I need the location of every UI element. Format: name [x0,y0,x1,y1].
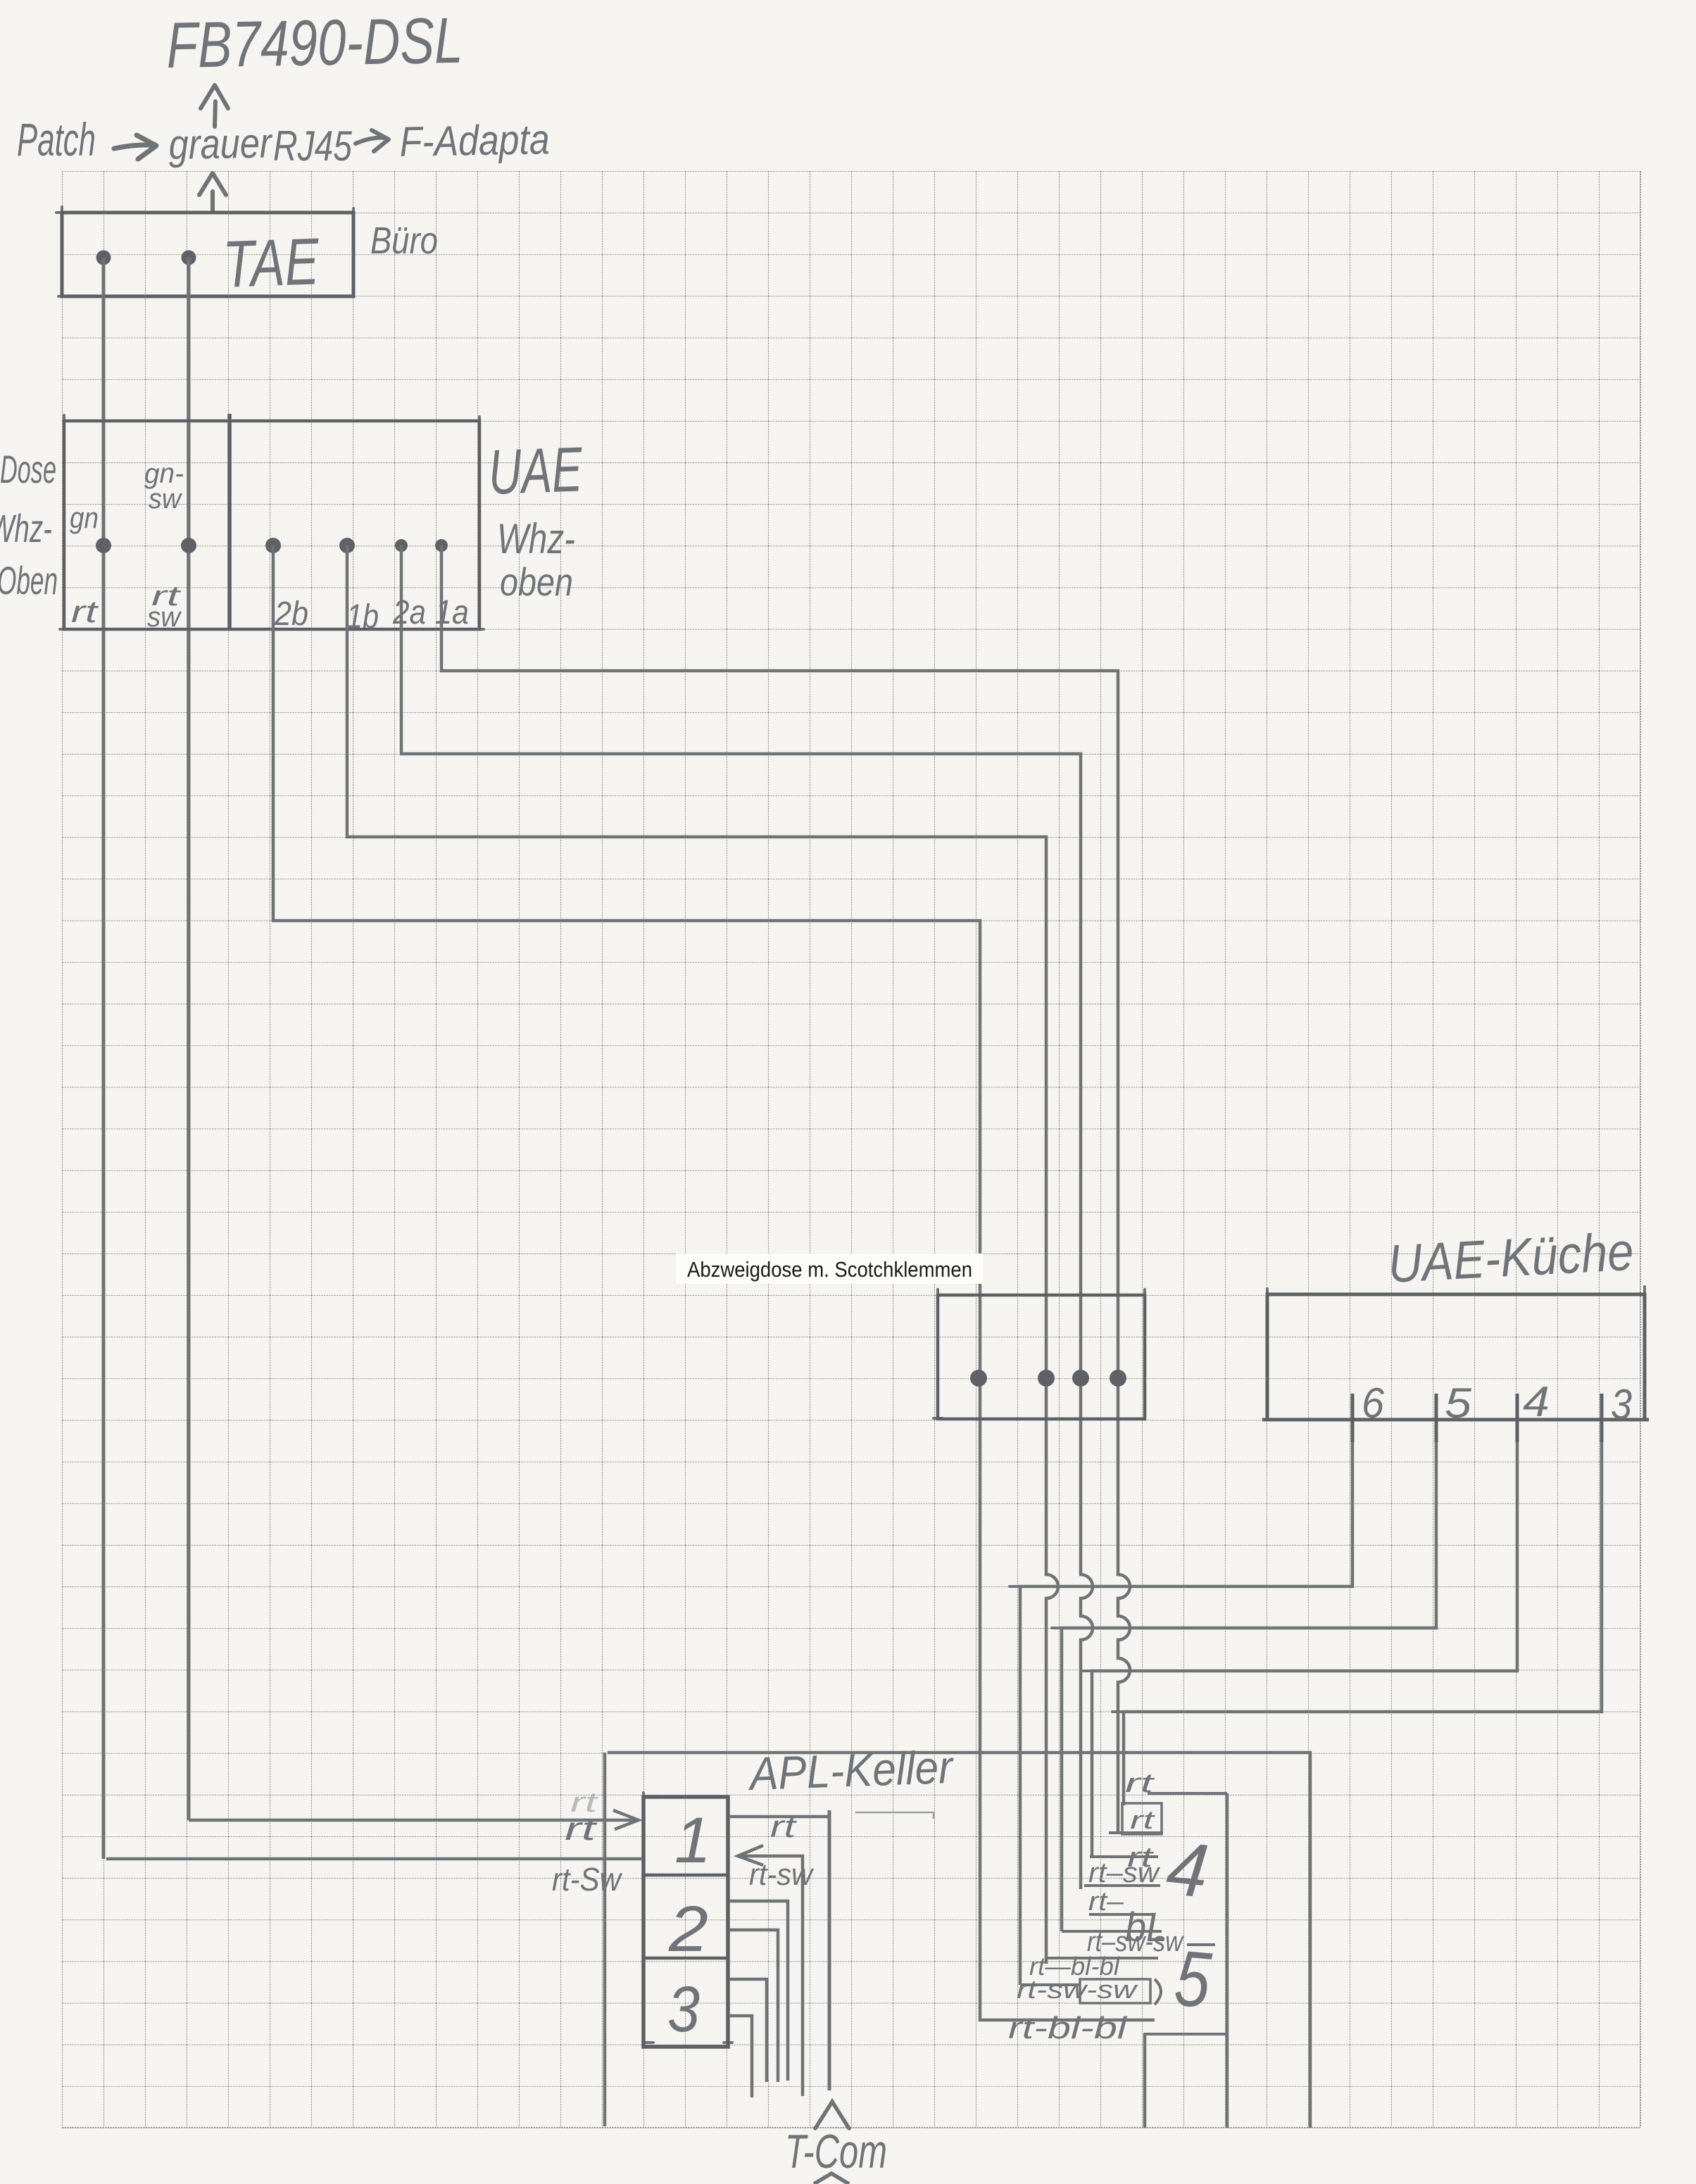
stack4 bottom wire [1089,1913,1155,1916]
typed label Abzweigdose m. Scotchklemmen [676,1254,983,1284]
svg-text:Dose: Dose [0,447,56,491]
svg-text:rt: rt [770,1810,797,1844]
dose contact dot 2b [265,538,281,553]
stack4 rt box [1122,1803,1162,1834]
svg-text:Büro: Büro [370,220,438,262]
dose contact dot gn [96,538,111,553]
svg-text:F-Adapta: F-Adapta [399,115,550,165]
wire APL block3 b [729,2016,752,2097]
wire pin 1b to Abzweigdose [347,545,1058,1964]
svg-text:rt: rt [570,1787,599,1818]
svg-text:UAE: UAE [487,434,584,508]
T-Com riser [828,1810,831,2090]
wire UAE pin3 to connector [1124,1442,1602,1805]
faint stub wire right of T-Com riser [855,1812,934,1819]
UAE-Küche box [1267,1294,1645,1420]
svg-text:rt: rt [1130,1805,1156,1834]
T-Com arrowhead [815,2102,849,2128]
wire TAE pin1 down to APL (rt-sw) [102,258,106,1859]
svg-text:rt: rt [1125,1769,1155,1798]
wire pin 2a to Abzweigdose [401,545,1093,1889]
arrow Patch to grauer [114,135,156,159]
riser from stack5 bottom [1143,2034,1147,2128]
Abzweigdose dot 1b [1038,1370,1055,1387]
arrow TAE to grauer RJ45 [199,173,226,211]
stack4 wire under rt box [1109,1831,1163,1834]
svg-text:rt-sw-sw: rt-sw-sw [1017,1975,1138,2004]
TAE box (Büro) [62,213,353,296]
dose contact dot gn-sw [181,538,196,553]
stack5 boxed rt-sw [1080,1979,1150,2003]
svg-text:rt-Sw: rt-Sw [552,1861,623,1898]
svg-text:Patch: Patch [17,113,96,165]
UAE pin 4 tick [1516,1394,1519,1442]
stack4 wire rt-sw bottom [1084,1884,1160,1887]
svg-text:sw: sw [149,484,183,515]
stack5 top wire [1062,1930,1162,1933]
APL divider 2/3 [643,1957,728,1960]
svg-text:Oben: Oben [0,558,58,602]
svg-text:1b: 1b [346,598,379,636]
svg-text:3: 3 [1611,1381,1632,1428]
arrow RJ45 to F-Adapta [356,130,389,151]
wire pin6 into boxed rt-sw [1020,1983,1080,1986]
connector stack 4 top wire [1148,1792,1227,1795]
svg-text:APL-Keller: APL-Keller [746,1741,955,1800]
svg-text:gn: gn [70,501,99,534]
long wire to riser [608,1753,1310,2128]
svg-text:T-Com: T-Com [785,2125,887,2178]
svg-text:RJ45: RJ45 [273,122,352,170]
svg-text:rt–: rt– [1088,1887,1124,1917]
dash right of sw-sw [1187,1943,1215,1946]
arrow to FB7490-DSL [201,85,228,127]
Abzweigdose box [938,1295,1145,1419]
wire UAE pin5 to connector [1062,1442,1436,1931]
svg-text:Whz-: Whz- [497,515,575,562]
Abzweigdose dot 2a [1072,1370,1089,1387]
dose contact dot 2a [395,539,408,552]
riser from stack4 to bottom [1226,1793,1229,2128]
wire pin 1a to Abzweigdose [441,545,1130,1833]
svg-text:rt: rt [71,595,99,629]
APL-Keller box [643,1797,728,2047]
svg-text:Whz-: Whz- [0,506,52,550]
pencil corner overshoot ticks [56,207,1645,2043]
svg-text:4: 4 [1523,1378,1550,1425]
svg-text:rt-sw: rt-sw [749,1857,815,1892]
wire APL block1 to T-Com riser [729,1815,829,1819]
svg-text:3: 3 [667,1974,700,2045]
Dose Whz-oben / UAE Whz-oben box [64,421,479,629]
wire rt into APL block1 [189,1810,639,1829]
wire APL block2 a [729,1901,788,2081]
wire rt-sw into APL block1 [106,1857,642,1861]
UAE pin 6 tick [1351,1394,1355,1442]
bracket after boxed rt-sw [1155,1979,1161,2005]
wire APL block3 a [729,1979,767,2082]
UAE pin 5 tick [1435,1394,1438,1442]
partial arrowhead at page bottom [814,2173,849,2184]
APL divider 1/2 [643,1874,728,1877]
svg-text:5: 5 [1445,1380,1472,1427]
Abzweigdose dot 1a [1110,1370,1126,1387]
svg-text:grauer: grauer [168,119,273,168]
stack5 bottom wire [1143,2033,1227,2035]
wire UAE pin6 to connector [1020,1442,1352,1985]
wire TAE pin2 down to APL (rt) [187,258,191,1820]
svg-text:1: 1 [674,1805,711,1876]
svg-text:2a: 2a [392,594,426,631]
svg-text:oben: oben [500,560,573,604]
Abzweigdose dot 2b [970,1370,987,1387]
wire rt-sw out of APL block1 (arrow left) [738,1845,803,2096]
svg-text:rt-bl-bl: rt-bl-bl [1008,2011,1128,2045]
svg-text:2: 2 [668,1893,708,1965]
svg-text:2b: 2b [274,595,308,633]
TAE contact dot 2 [182,251,196,265]
svg-text:6: 6 [1362,1380,1385,1427]
divider in UAE box [227,414,232,629]
wire UAE pin4 to connector [1092,1442,1517,1857]
svg-text:rt–sw: rt–sw [1088,1857,1161,1888]
svg-text:TAE: TAE [222,224,321,301]
svg-text:sw: sw [147,602,182,633]
wire pin 2b to Abzweigdose [273,545,1155,2020]
svg-text:FB7490-DSL: FB7490-DSL [166,5,464,82]
wire APL block2 b [729,1930,778,2082]
stack5 second wire [1046,1957,1158,1959]
UAE pin 3 tick [1600,1394,1604,1442]
dose contact dot 1a [435,539,448,552]
TAE contact dot 1 [96,251,111,265]
dose contact dot 1b [339,538,355,553]
riser wire left [603,1753,607,2126]
svg-text:Abzweigdose m. Scotchklemmen: Abzweigdose m. Scotchklemmen [687,1257,972,1282]
UAE-Küche bottom edge overdraw [1262,1418,1649,1422]
stack4 wire rt-sw top [1090,1855,1158,1858]
